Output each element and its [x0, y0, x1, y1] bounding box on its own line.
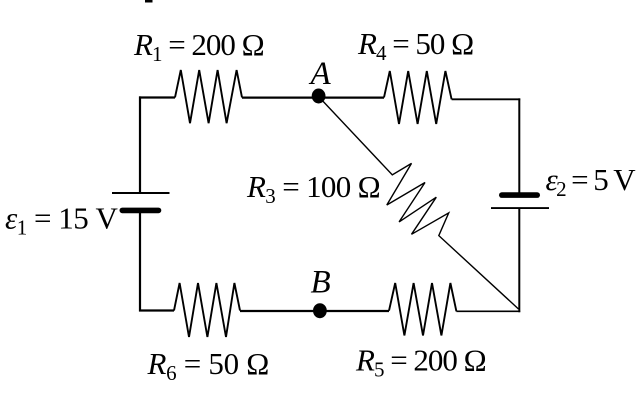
svg-text:A: A: [309, 56, 332, 92]
svg-text:R4 = 50 Ω: R4 = 50 Ω: [357, 26, 473, 65]
svg-text:B: B: [311, 265, 331, 301]
svg-text:R6 = 50 Ω: R6 = 50 Ω: [147, 346, 270, 385]
